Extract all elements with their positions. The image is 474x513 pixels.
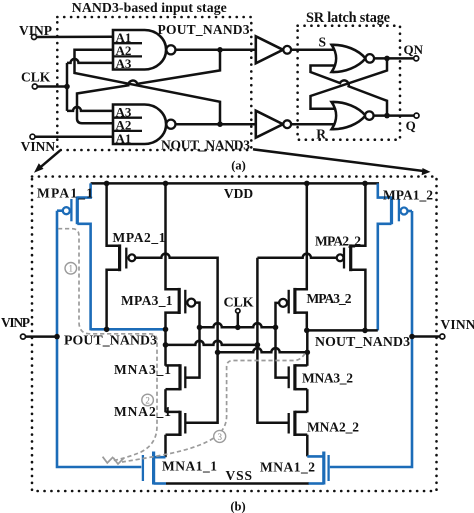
wire MPA2_1 gate to NOUT (hop over MPA3_1 source): [135, 254, 217, 423]
svg-text:MPA3_1: MPA3_1: [121, 293, 173, 308]
wire VINP to A1 of upper NAND: [37, 36, 114, 39]
node MNA3_2 drain on NOUT: [304, 328, 310, 334]
arrow of dashed path 3: [113, 458, 124, 464]
node MPA2_1 drain on POUT: [104, 327, 110, 333]
VDD rail: [91, 182, 379, 185]
wire MPA3_1/MNA3_1 gate vertical (CLK net): [186, 303, 200, 378]
wire CLK to A3 lower (hop over feedback line): [67, 107, 113, 111]
svg-text:NOUT_NAND3: NOUT_NAND3: [315, 334, 410, 349]
transistor MNA3_1 (NMOS): [166, 364, 186, 390]
node CLK branch junction: [64, 84, 70, 90]
svg-text:MNA2_2: MNA2_2: [307, 420, 359, 435]
G1 cell divider lines: [113, 43, 142, 56]
input stage dotted box: [57, 17, 251, 150]
NAND3 gate G2 (lower) body: [113, 105, 166, 145]
wire NOUT_NAND3 node line: [307, 329, 378, 332]
svg-text:VDD: VDD: [224, 186, 253, 201]
svg-text:A3: A3: [116, 56, 132, 71]
svg-text:1: 1: [69, 264, 74, 274]
row2 POUT cross bus: [166, 341, 258, 345]
terminal CLK (b): [236, 309, 240, 313]
svg-text:VINP: VINP: [1, 315, 30, 330]
dashed path 3: [122, 354, 305, 463]
transistor MNA3_2 (NMOS): [289, 364, 308, 390]
wire VINN terminal lead: [412, 335, 440, 338]
wire CLK to branch node: [37, 85, 67, 88]
arrow of dashed path 1: [103, 457, 114, 463]
node NOUT junction: [217, 121, 223, 127]
svg-text:POUT_NAND3: POUT_NAND3: [64, 333, 157, 348]
wire MPA2_2/MNA2_2 gate vertical lower: [257, 345, 288, 423]
wire left NMOS stack vertical: [164, 329, 167, 366]
wire stack MNA2_2 to MNA1_2: [306, 435, 309, 457]
wire SR cross: QN to NOR2 top input: [311, 58, 388, 108]
transistor MPA1_2 (PMOS, blue): [378, 183, 412, 330]
G1 output bubble: [166, 45, 175, 54]
wire QN output: [374, 57, 414, 60]
G2 cell divider lines: [113, 118, 142, 131]
transistor MNA2_2 (NMOS): [289, 411, 308, 436]
transistor MNA1_1 (NMOS, blue): [143, 452, 166, 485]
dashed path 1: [58, 229, 157, 461]
node CLK terminal tap: [235, 325, 241, 331]
svg-text:SR latch stage: SR latch stage: [306, 10, 390, 26]
wire cross-coupling: NOUT to A2 upper (diagonal): [75, 50, 221, 124]
wire VINP terminal lead: [26, 335, 58, 338]
G2 output bubble: [166, 120, 175, 129]
svg-text:MPA2_1: MPA2_1: [113, 230, 166, 245]
terminal CLK: [32, 84, 37, 89]
node VINN junction: [409, 334, 415, 340]
row1 CLK bus (hops over gate verticals): [200, 323, 276, 327]
part b dotted box: [32, 177, 437, 492]
NAND3 gate G1 (upper) body: [113, 30, 166, 70]
transistor MNA2_1 (NMOS): [166, 411, 186, 436]
transistor MNA1_2 (NMOS, blue): [307, 452, 328, 485]
svg-text:POUT_NAND3: POUT_NAND3: [158, 22, 250, 37]
terminal VINN: [440, 334, 445, 339]
svg-text:2: 2: [145, 395, 150, 405]
svg-text:QN: QN: [404, 42, 424, 57]
wire CLK terminal drop: [237, 313, 240, 327]
svg-text:MNA3_2: MNA3_2: [302, 370, 353, 385]
svg-text:MPA3_2: MPA3_2: [307, 291, 352, 306]
node row3 left (MPA2_1 gate vertical): [215, 350, 221, 356]
node POUT junction: [217, 47, 223, 53]
NOR gate U2 (lower) body: [332, 102, 366, 129]
SR latch dotted box: [298, 26, 400, 140]
INV1 bubble: [283, 46, 291, 54]
wire VINN input net (blue): [330, 211, 412, 467]
transistor MPA3_1 (PMOS): [166, 183, 196, 330]
wire cross-coupling: POUT to A2 lower (diagonal with hop): [77, 50, 220, 123]
wire stack MNA3_1 to MNA2_1: [164, 389, 167, 412]
svg-text:NOUT_NAND3: NOUT_NAND3: [161, 137, 250, 152]
INV2 bubble: [283, 120, 291, 128]
node QN junction: [384, 56, 390, 62]
node row3 right (NOUT stack): [305, 350, 311, 356]
wire NOUT_NAND3 to inverter 2: [175, 123, 255, 126]
svg-text:Q: Q: [406, 118, 416, 133]
node VINP junction: [54, 334, 60, 340]
svg-text:MNA2_1: MNA2_1: [114, 404, 171, 419]
svg-text:R: R: [316, 126, 326, 141]
VSS rail: [166, 482, 309, 485]
svg-text:CLK: CLK: [224, 296, 254, 311]
svg-text:(a): (a): [231, 159, 246, 173]
wire POUT_NAND3 node line (blue): [91, 328, 166, 331]
terminal VINN: [30, 134, 35, 139]
wire MPA3_2/MNA3_2 gate vertical (CLK net): [276, 303, 289, 378]
wire CLK to A3 upper (hop over A2 feedback line): [67, 59, 113, 63]
node MPA2_2 drain on NOUT: [362, 328, 368, 334]
callout arrow right (a to b): [253, 149, 426, 171]
marker circle 2: [142, 394, 154, 406]
svg-text:MPA1_1: MPA1_1: [37, 186, 93, 201]
wire CLK vertical branch: [66, 63, 69, 111]
transistor MPA2_1 (PMOS): [107, 183, 136, 330]
U1 output bubble: [366, 54, 375, 63]
svg-text:MNA1_2: MNA1_2: [260, 460, 315, 475]
terminal Q: [414, 113, 419, 118]
svg-text:MNA3_1: MNA3_1: [114, 362, 171, 377]
wire Q output: [374, 114, 414, 117]
marker circle 1: [65, 263, 77, 275]
svg-text:3: 3: [217, 432, 222, 442]
wire MPA2_2 gate to POUT (hop over MPA3_2 source): [257, 254, 336, 345]
NOR gate U1 (upper) body: [332, 45, 366, 72]
svg-text:MNA1_1: MNA1_1: [162, 459, 217, 474]
wire R: INV2 to NOR2: [291, 123, 338, 126]
wire VINN to A1 of lower NAND: [35, 135, 113, 138]
svg-text:S: S: [319, 35, 327, 50]
terminal VINP: [32, 35, 37, 40]
wire right NMOS stack vertical: [306, 330, 309, 365]
wire stack MNA2_1 to MNA1_1: [164, 435, 167, 458]
marker circle 3: [214, 430, 226, 442]
transistor MPA2_2 (PMOS): [337, 183, 366, 330]
inverter INV2: [256, 111, 283, 138]
svg-text:NAND3-based input stage: NAND3-based input stage: [72, 0, 227, 15]
row3 NOUT cross bus: [218, 348, 308, 352]
svg-text:MPA2_2: MPA2_2: [315, 234, 361, 249]
svg-text:MPA1_2: MPA1_2: [383, 188, 433, 203]
node row2 to MPA2_2 gate: [255, 342, 261, 348]
svg-text:VINN: VINN: [21, 139, 56, 154]
wire SR cross: Q to NOR1 bottom input (with hop): [311, 66, 388, 116]
VDD rail junction dots: [104, 181, 110, 187]
svg-text:CLK: CLK: [21, 70, 51, 85]
inverter INV1: [256, 36, 283, 63]
node CLK row junction at MPA3_1 gate: [197, 325, 203, 331]
wire stack MNA3_2 to MNA2_2: [306, 389, 309, 412]
callout arrow left (a to b): [38, 151, 61, 170]
terminal QN: [414, 56, 419, 61]
svg-text:A1: A1: [116, 131, 132, 146]
node POUT stack junction: [163, 327, 169, 333]
transistor MPA3_2 (PMOS): [279, 183, 307, 330]
wire VINP input net (blue): [57, 211, 141, 467]
wire S: INV1 to NOR1: [291, 49, 338, 52]
wire POUT_NAND3 to inverter 1: [175, 49, 255, 52]
terminal VINP: [21, 334, 26, 339]
transistor MPA1_1 (PMOS, blue): [57, 183, 91, 330]
svg-text:VINN: VINN: [441, 317, 474, 332]
U2 output bubble: [365, 111, 374, 120]
node Q junction: [384, 113, 390, 119]
node POUT row2 tap: [163, 342, 169, 348]
svg-text:(b): (b): [230, 500, 245, 513]
svg-text:VSS: VSS: [226, 468, 253, 483]
node CLK right gate tap: [273, 325, 279, 331]
